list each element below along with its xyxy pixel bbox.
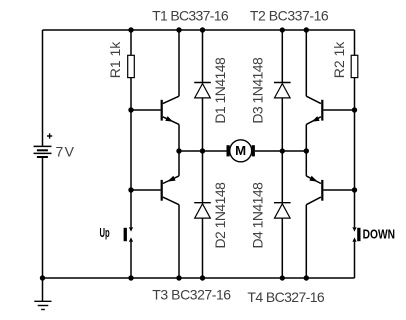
diode D2 1N4148	[194, 203, 211, 218]
wire T2 collector	[305, 30, 307, 96]
node motor right T junction	[304, 148, 309, 153]
wire T1 base	[131, 109, 161, 111]
node T4 base junction	[352, 187, 357, 192]
wire T3 emitter	[178, 151, 180, 176]
wire D4 bottom	[281, 218, 283, 278]
node D4 bottom rail junction	[280, 275, 285, 280]
transistor T4 BC327-16	[306, 176, 323, 205]
transistor T2 BC337-16	[306, 96, 323, 124]
wire R2 bottom	[354, 78, 356, 110]
wire T3 base	[131, 189, 161, 191]
wire T2 base	[323, 109, 354, 111]
resistor R2	[351, 55, 358, 77]
diode D3 1N4148	[274, 83, 291, 98]
transistor T1 BC337-16	[161, 96, 179, 124]
node T4 collector rail junction	[304, 275, 309, 280]
wire D4 top	[281, 151, 283, 203]
svg-text:M: M	[235, 143, 246, 158]
ground	[34, 301, 51, 309]
node T1 collector rail junction	[176, 27, 181, 32]
node battery bottom rail junction	[40, 275, 45, 280]
transistor T3 BC327-16	[161, 176, 179, 205]
switch S1 Up	[124, 227, 134, 242]
svg-text:T2 BC337-16: T2 BC337-16	[250, 8, 329, 24]
node Up bottom rail junction	[128, 275, 133, 280]
svg-text:D3 1N4148: D3 1N4148	[250, 57, 266, 124]
wire left battery column upper	[42, 30, 44, 146]
wire right base column	[354, 110, 356, 227]
battery B1 7V	[34, 133, 53, 158]
svg-text:D2 1N4148: D2 1N4148	[212, 182, 228, 249]
wire D3 to motor node	[281, 98, 283, 151]
wire T4 base	[323, 189, 354, 191]
node D1 rail junction	[200, 27, 205, 32]
motor M1	[227, 140, 255, 162]
svg-text:T1 BC337-16: T1 BC337-16	[152, 8, 229, 24]
wire T1 emitter	[178, 124, 180, 151]
wire ground stub	[42, 278, 44, 301]
node motor left D junction	[200, 148, 205, 153]
wire D1 to motor node	[202, 98, 204, 151]
wire motor right	[255, 150, 306, 152]
node motor right D junction	[280, 148, 285, 153]
wire D2 bottom	[202, 218, 204, 278]
svg-text:7 V: 7 V	[56, 144, 75, 160]
diode D4 1N4148	[274, 203, 291, 218]
wire bottom ground rail	[43, 277, 355, 279]
wire below Up switch	[130, 242, 132, 278]
wire below DOWN switch	[354, 242, 356, 278]
svg-text:Up: Up	[100, 225, 110, 240]
node D2 bottom rail junction	[200, 275, 205, 280]
wire R1 top	[130, 30, 132, 55]
wire D3 top	[281, 30, 283, 83]
wire left base column	[130, 110, 132, 227]
wire T3 collector	[178, 205, 180, 278]
wire D2 top	[202, 151, 204, 203]
node T3 collector rail junction	[176, 275, 181, 280]
wire motor left	[179, 150, 227, 152]
node T1 base junction	[128, 107, 133, 112]
wire T4 emitter	[305, 151, 307, 176]
switch S2 DOWN	[352, 227, 360, 242]
wire left battery column lower	[42, 158, 44, 278]
svg-text:DOWN: DOWN	[363, 227, 395, 242]
wire T4 collector	[305, 205, 307, 278]
node motor left T junction	[176, 148, 181, 153]
wire R1 bottom	[130, 78, 132, 110]
node T2 base junction	[352, 107, 357, 112]
wire top supply rail	[43, 29, 355, 31]
svg-text:R1 1k: R1 1k	[107, 41, 123, 79]
wire T1 collector	[178, 30, 180, 96]
diode D1 1N4148	[194, 83, 211, 98]
wire D1 top	[202, 30, 204, 83]
svg-text:R2 1k: R2 1k	[331, 41, 347, 79]
wire R2 top	[354, 30, 356, 55]
node T3 base junction	[128, 187, 133, 192]
node R1 top rail junction	[128, 27, 133, 32]
svg-text:D1 1N4148: D1 1N4148	[212, 57, 228, 124]
resistor R1	[128, 55, 135, 77]
svg-text:T4 BC327-16: T4 BC327-16	[247, 289, 325, 305]
svg-text:T3 BC327-16: T3 BC327-16	[152, 287, 231, 303]
node T2 collector rail junction	[304, 27, 309, 32]
svg-text:D4 1N4148: D4 1N4148	[250, 182, 266, 249]
wire T2 emitter	[305, 124, 307, 151]
node D3 rail junction	[280, 27, 285, 32]
